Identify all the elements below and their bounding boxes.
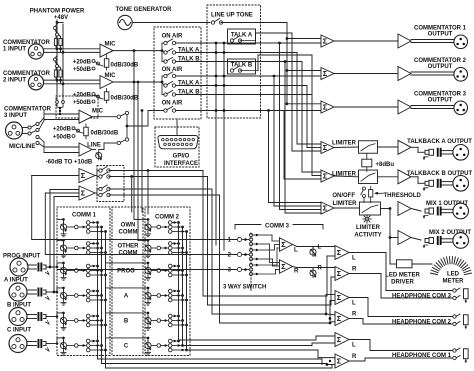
svg-text:-60dB TO +10dB: -60dB TO +10dB: [46, 159, 93, 165]
svg-text:Σ: Σ: [337, 293, 342, 302]
svg-text:R: R: [352, 354, 357, 360]
svg-text:Σ: Σ: [81, 171, 86, 180]
svg-text:Σ: Σ: [323, 102, 328, 111]
svg-text:LINE UP TONE: LINE UP TONE: [211, 13, 253, 19]
svg-text:PHANTOM POWER: PHANTOM POWER: [30, 9, 85, 15]
svg-text:C INPUT: C INPUT: [7, 328, 31, 334]
svg-text:METER: METER: [443, 279, 465, 285]
svg-text:TALK A: TALK A: [231, 33, 253, 39]
svg-text:LIMITER: LIMITER: [332, 141, 357, 147]
svg-text:TALK B: TALK B: [231, 63, 253, 69]
svg-text:L: L: [352, 301, 356, 307]
svg-text:3: 3: [228, 267, 232, 273]
svg-text:+20dB: +20dB: [73, 60, 92, 66]
svg-text:COMM 1: COMM 1: [72, 213, 97, 219]
svg-text:+50dB: +50dB: [73, 67, 92, 73]
svg-text:LED METER: LED METER: [385, 273, 420, 279]
svg-text:L: L: [294, 248, 298, 254]
svg-text:THRESHOLD: THRESHOLD: [384, 193, 422, 199]
svg-text:ON/OFF: ON/OFF: [332, 193, 355, 199]
svg-text:Σ: Σ: [337, 356, 342, 365]
svg-text:Σ: Σ: [323, 143, 328, 152]
svg-text:ON AIR: ON AIR: [162, 34, 183, 40]
svg-text:COMM 3: COMM 3: [265, 224, 290, 230]
svg-text:Σ: Σ: [323, 203, 328, 212]
svg-text:OUTPUT: OUTPUT: [428, 31, 453, 37]
svg-text:MIC: MIC: [105, 73, 117, 79]
svg-text:R: R: [294, 269, 299, 275]
svg-text:1 INPUT: 1 INPUT: [3, 47, 26, 53]
svg-text:HEADPHONE COM 3: HEADPHONE COM 3: [392, 294, 452, 300]
svg-text:Σ: Σ: [337, 269, 342, 278]
svg-text:TALKBACK A OUTPUT: TALKBACK A OUTPUT: [407, 139, 472, 145]
svg-text:L: L: [318, 245, 322, 251]
svg-text:MIC/LINE: MIC/LINE: [9, 144, 35, 150]
svg-text:TONE GENERATOR: TONE GENERATOR: [115, 7, 172, 13]
svg-text:R: R: [352, 266, 357, 272]
svg-text:+50dB: +50dB: [53, 135, 72, 141]
svg-text:Σ: Σ: [337, 248, 342, 257]
svg-text:3 INPUT: 3 INPUT: [4, 113, 27, 119]
svg-text:1: 1: [228, 237, 232, 243]
svg-text:COMMENTATOR: COMMENTATOR: [3, 71, 51, 77]
svg-text:Σ: Σ: [337, 314, 342, 323]
svg-text:+20dB: +20dB: [53, 127, 72, 133]
svg-text:L: L: [352, 256, 356, 262]
svg-text:OUTPUT: OUTPUT: [428, 97, 453, 103]
svg-text:INTERFACE: INTERFACE: [164, 161, 198, 167]
svg-text:2: 2: [228, 252, 232, 258]
svg-text:3 WAY SWITCH: 3 WAY SWITCH: [223, 285, 266, 291]
svg-text:Σ: Σ: [323, 171, 328, 180]
svg-text:OWN: OWN: [121, 223, 136, 229]
svg-text:0dB/30dB: 0dB/30dB: [91, 131, 119, 137]
svg-text:Σ: Σ: [323, 36, 328, 45]
svg-text:OTHER: OTHER: [118, 244, 140, 250]
svg-text:+48V: +48V: [54, 15, 68, 21]
svg-text:COMMENTATOR: COMMENTATOR: [4, 107, 52, 113]
svg-text:2 INPUT: 2 INPUT: [3, 78, 26, 84]
svg-text:A: A: [124, 294, 129, 300]
svg-text:OUTPUT: OUTPUT: [428, 64, 453, 70]
svg-text:COMM: COMM: [119, 230, 138, 236]
svg-text:ACTIVITY: ACTIVITY: [354, 232, 381, 238]
svg-text:Σ: Σ: [323, 69, 328, 78]
svg-text:Σ: Σ: [281, 240, 286, 249]
svg-text:ON AIR: ON AIR: [162, 101, 183, 107]
svg-text:+8dBu: +8dBu: [376, 162, 395, 168]
svg-text:R: R: [352, 311, 357, 317]
svg-text:L: L: [352, 343, 356, 349]
svg-text:+50dB: +50dB: [73, 100, 92, 106]
svg-text:Σ: Σ: [281, 262, 286, 271]
svg-text:LIMITER: LIMITER: [356, 225, 381, 231]
svg-text:DRIVER: DRIVER: [391, 280, 414, 286]
svg-text:COMM: COMM: [119, 251, 138, 257]
svg-text:MIC: MIC: [105, 41, 117, 47]
svg-text:0dB/30dB: 0dB/30dB: [111, 63, 139, 69]
svg-text:0dB/30dB: 0dB/30dB: [111, 96, 139, 102]
svg-text:COMMENTATOR: COMMENTATOR: [3, 40, 51, 46]
svg-text:Σ: Σ: [337, 335, 342, 344]
svg-text:B: B: [124, 319, 129, 325]
svg-text:LED: LED: [447, 272, 460, 278]
svg-text:R: R: [318, 266, 323, 272]
svg-text:Σ: Σ: [81, 188, 86, 197]
svg-text:MIC: MIC: [92, 109, 104, 115]
svg-text:COMM 2: COMM 2: [155, 215, 180, 221]
svg-text:HEADPHONE COM 2: HEADPHONE COM 2: [392, 320, 452, 326]
svg-text:LIMITER: LIMITER: [333, 201, 358, 207]
svg-text:C: C: [124, 344, 129, 350]
svg-text:GPI/O: GPI/O: [173, 154, 190, 160]
svg-text:LINE: LINE: [87, 142, 101, 148]
